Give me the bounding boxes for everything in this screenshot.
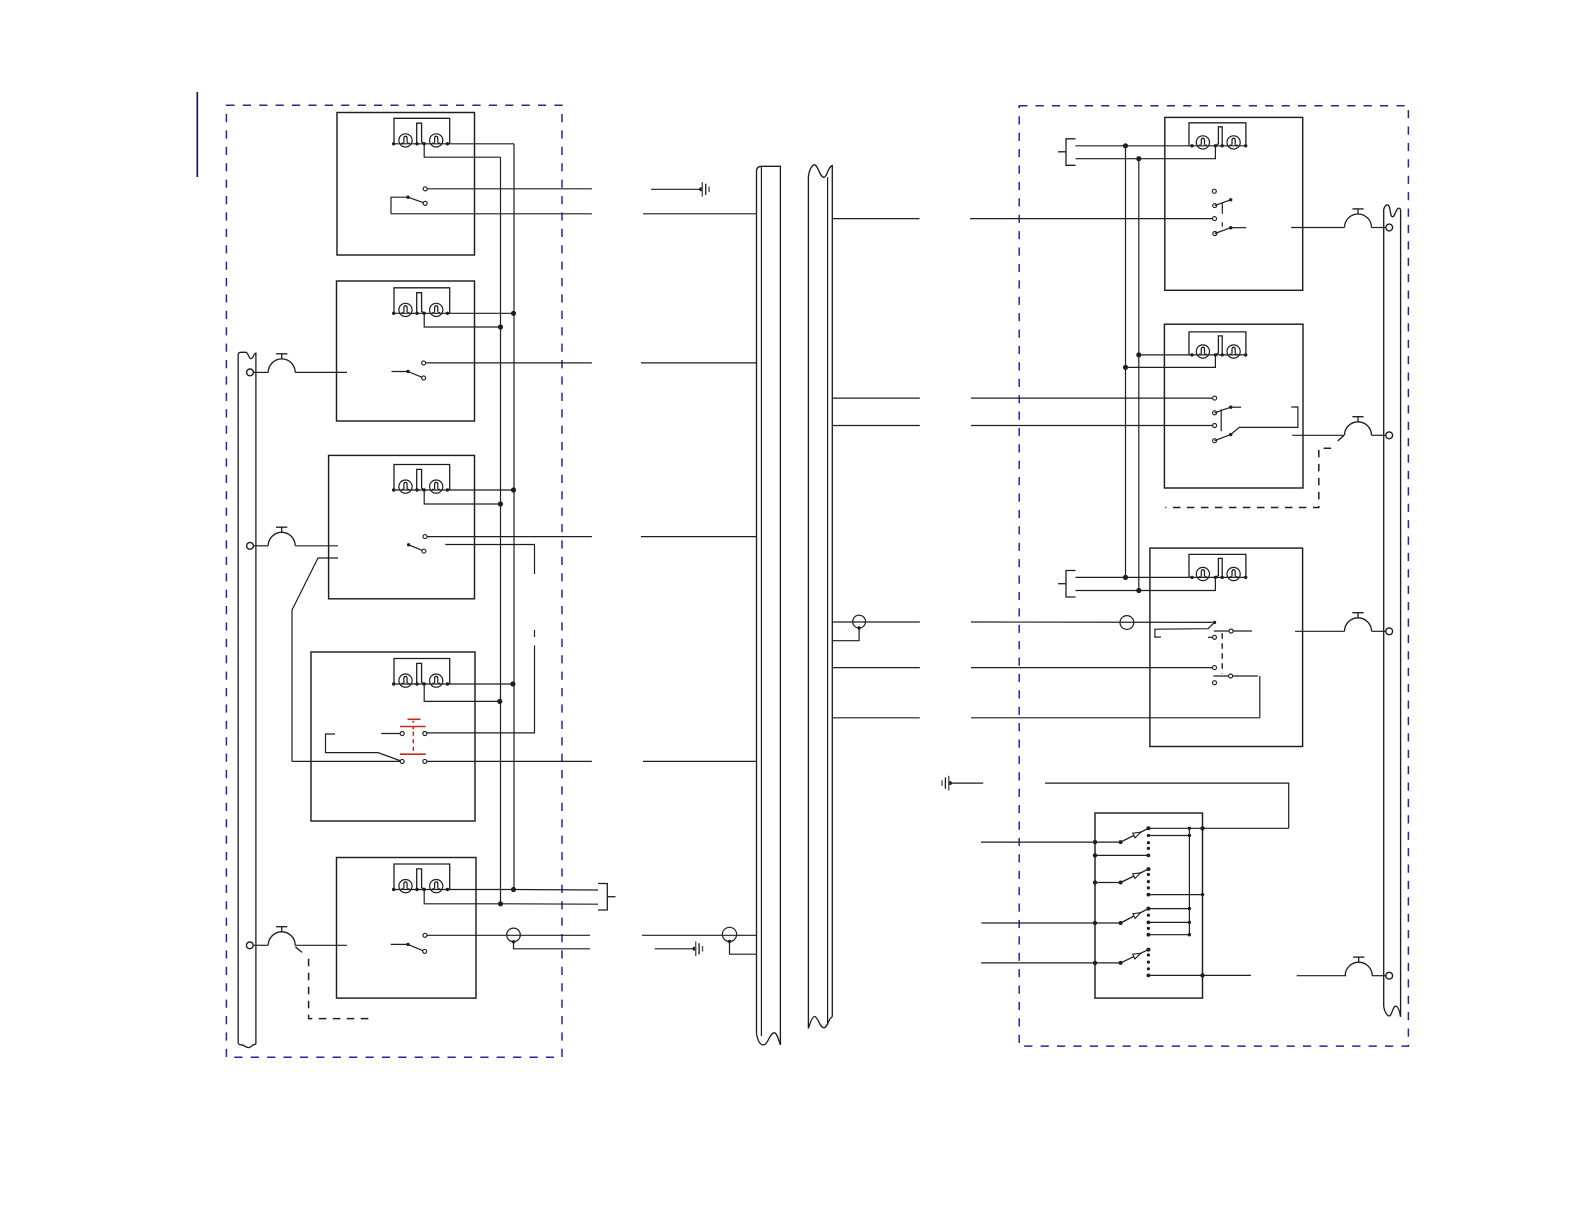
- thermal breaker (red): [408, 718, 421, 720]
- ground G1: [651, 188, 701, 190]
- wire R3 upper common run: [832, 621, 920, 623]
- wire S4 out run: [427, 760, 592, 762]
- wire R2 lower common run: [832, 425, 920, 427]
- lamp box LB4: [311, 652, 475, 821]
- wire B2 linkage to LB4: [292, 558, 338, 761]
- lamps LB5: [394, 864, 450, 890]
- wire RB3 feed 2: [1076, 577, 1216, 590]
- selector switch M1: [1121, 828, 1149, 842]
- switch R2: [1213, 411, 1217, 415]
- pilot circle C4: [1120, 616, 1134, 630]
- connector CN2: [1066, 139, 1076, 166]
- selector bus vertical: [1188, 828, 1190, 934]
- wire RB3 feed 1: [1076, 576, 1193, 578]
- lamps LB2: [394, 288, 450, 314]
- lamps LB1: [394, 118, 450, 144]
- bell B1: [247, 369, 254, 376]
- wire LB2 lamp feed A: [447, 312, 513, 314]
- switch R3 lower contacts: [1213, 675, 1257, 677]
- pilot circle C2: [722, 927, 736, 941]
- selector box MSB: [1095, 813, 1203, 998]
- bell B6: [1345, 618, 1372, 632]
- left dashed enclosure: [226, 105, 562, 1057]
- wire MSB out top: [1203, 827, 1289, 829]
- wire S2 throw run: [426, 362, 592, 364]
- selector switch M3: [1121, 909, 1149, 923]
- harness bar A: [757, 166, 781, 1045]
- wire S5 throw run: [427, 934, 590, 936]
- wire R3 lower common run: [832, 667, 920, 669]
- ground G2: [655, 948, 695, 950]
- wire LB1 lamp feed B: [424, 144, 500, 157]
- wire MSB out bottom run: [1203, 974, 1251, 976]
- lamps LB4: [394, 659, 450, 685]
- switch R1 lower: [1213, 232, 1217, 236]
- harness bar B: [808, 165, 832, 1029]
- bell B7: [1345, 962, 1372, 975]
- switch R1: [1212, 189, 1216, 193]
- selector switch M4: [1121, 950, 1149, 963]
- bracket R2: [1231, 407, 1298, 435]
- switch R2 lower: [1213, 439, 1217, 443]
- wire S3 common to LB4: [445, 545, 534, 575]
- connector CN3: [1066, 571, 1076, 598]
- lamp box LB5: [337, 858, 477, 999]
- vertical feeder C: [1125, 146, 1127, 578]
- wire R1 to bell: [1291, 227, 1344, 229]
- blue margin tick: [196, 92, 198, 177]
- wire S3 throw run: [427, 536, 592, 538]
- linkage dashes B5: [1165, 448, 1331, 507]
- wire R3 return run: [1259, 676, 1261, 718]
- bell B5: [1345, 422, 1372, 436]
- lamp box LB1: [337, 113, 475, 256]
- lamps RB1: [1189, 123, 1246, 146]
- right connector bus: [1384, 205, 1401, 1017]
- wire S1 common run: [391, 213, 592, 215]
- lamp box LB2: [337, 281, 475, 421]
- wire LB5 lamp feed B: [424, 890, 500, 904]
- lamp box LB3: [329, 455, 475, 598]
- wire RB1 feed 1: [1076, 145, 1193, 147]
- switch S4 blade: [326, 734, 402, 761]
- wire R1 common: [832, 218, 919, 220]
- switch S3: [423, 535, 427, 539]
- bell B2: [247, 542, 254, 549]
- pilot circle C1: [507, 928, 521, 942]
- ground G3: [948, 781, 952, 785]
- vertical feeder A: [513, 144, 515, 890]
- lamps RB2: [1189, 332, 1246, 355]
- wire LB3 lamp feed A: [447, 489, 513, 491]
- wire RB1 feed 2: [1076, 146, 1216, 159]
- left connector bus: [238, 352, 256, 1044]
- wire LB1 lamp feed A: [447, 143, 514, 145]
- lamps LB3: [394, 465, 450, 491]
- wire S4 feed: [292, 760, 400, 762]
- wire S1 throw: [427, 188, 592, 190]
- vertical feeder D: [1138, 159, 1140, 591]
- wire LB3 lamp feed B: [424, 490, 500, 504]
- bell B4: [1345, 214, 1372, 228]
- bell B3: [246, 942, 253, 949]
- wire to MSB loop: [1045, 783, 1289, 828]
- switch S1: [423, 187, 427, 191]
- selector switch M2: [1121, 869, 1149, 882]
- lamp box RB2: [1164, 324, 1303, 488]
- switch R3 contacts: [1214, 630, 1252, 632]
- switch S5: [423, 933, 427, 937]
- switch S4 upper contacts: [381, 733, 400, 735]
- wire LB5 lamp feed A: [447, 889, 513, 891]
- wire R3 to bell: [1295, 630, 1345, 632]
- wire LB4 lamp feeds: [447, 683, 513, 685]
- lamp box RB1: [1165, 117, 1303, 290]
- linkage dashes B3: [309, 959, 372, 1019]
- switch S2: [422, 361, 426, 365]
- pilot circle C3: [853, 615, 866, 628]
- lamp box RB3: [1150, 548, 1303, 746]
- connector CN1: [598, 884, 607, 911]
- vertical feeder B: [500, 157, 502, 903]
- switch R3 blade: [1155, 622, 1215, 637]
- wire RB2 feed 1: [1139, 354, 1192, 356]
- wire RB2 feed 2: [1126, 355, 1216, 368]
- lamps RB3: [1189, 554, 1246, 577]
- right dashed enclosure: [1019, 106, 1408, 1046]
- wire R2 upper common run: [832, 397, 920, 399]
- wire R2 to bell: [1292, 434, 1344, 436]
- wire LB2 lamp feed B: [424, 313, 500, 327]
